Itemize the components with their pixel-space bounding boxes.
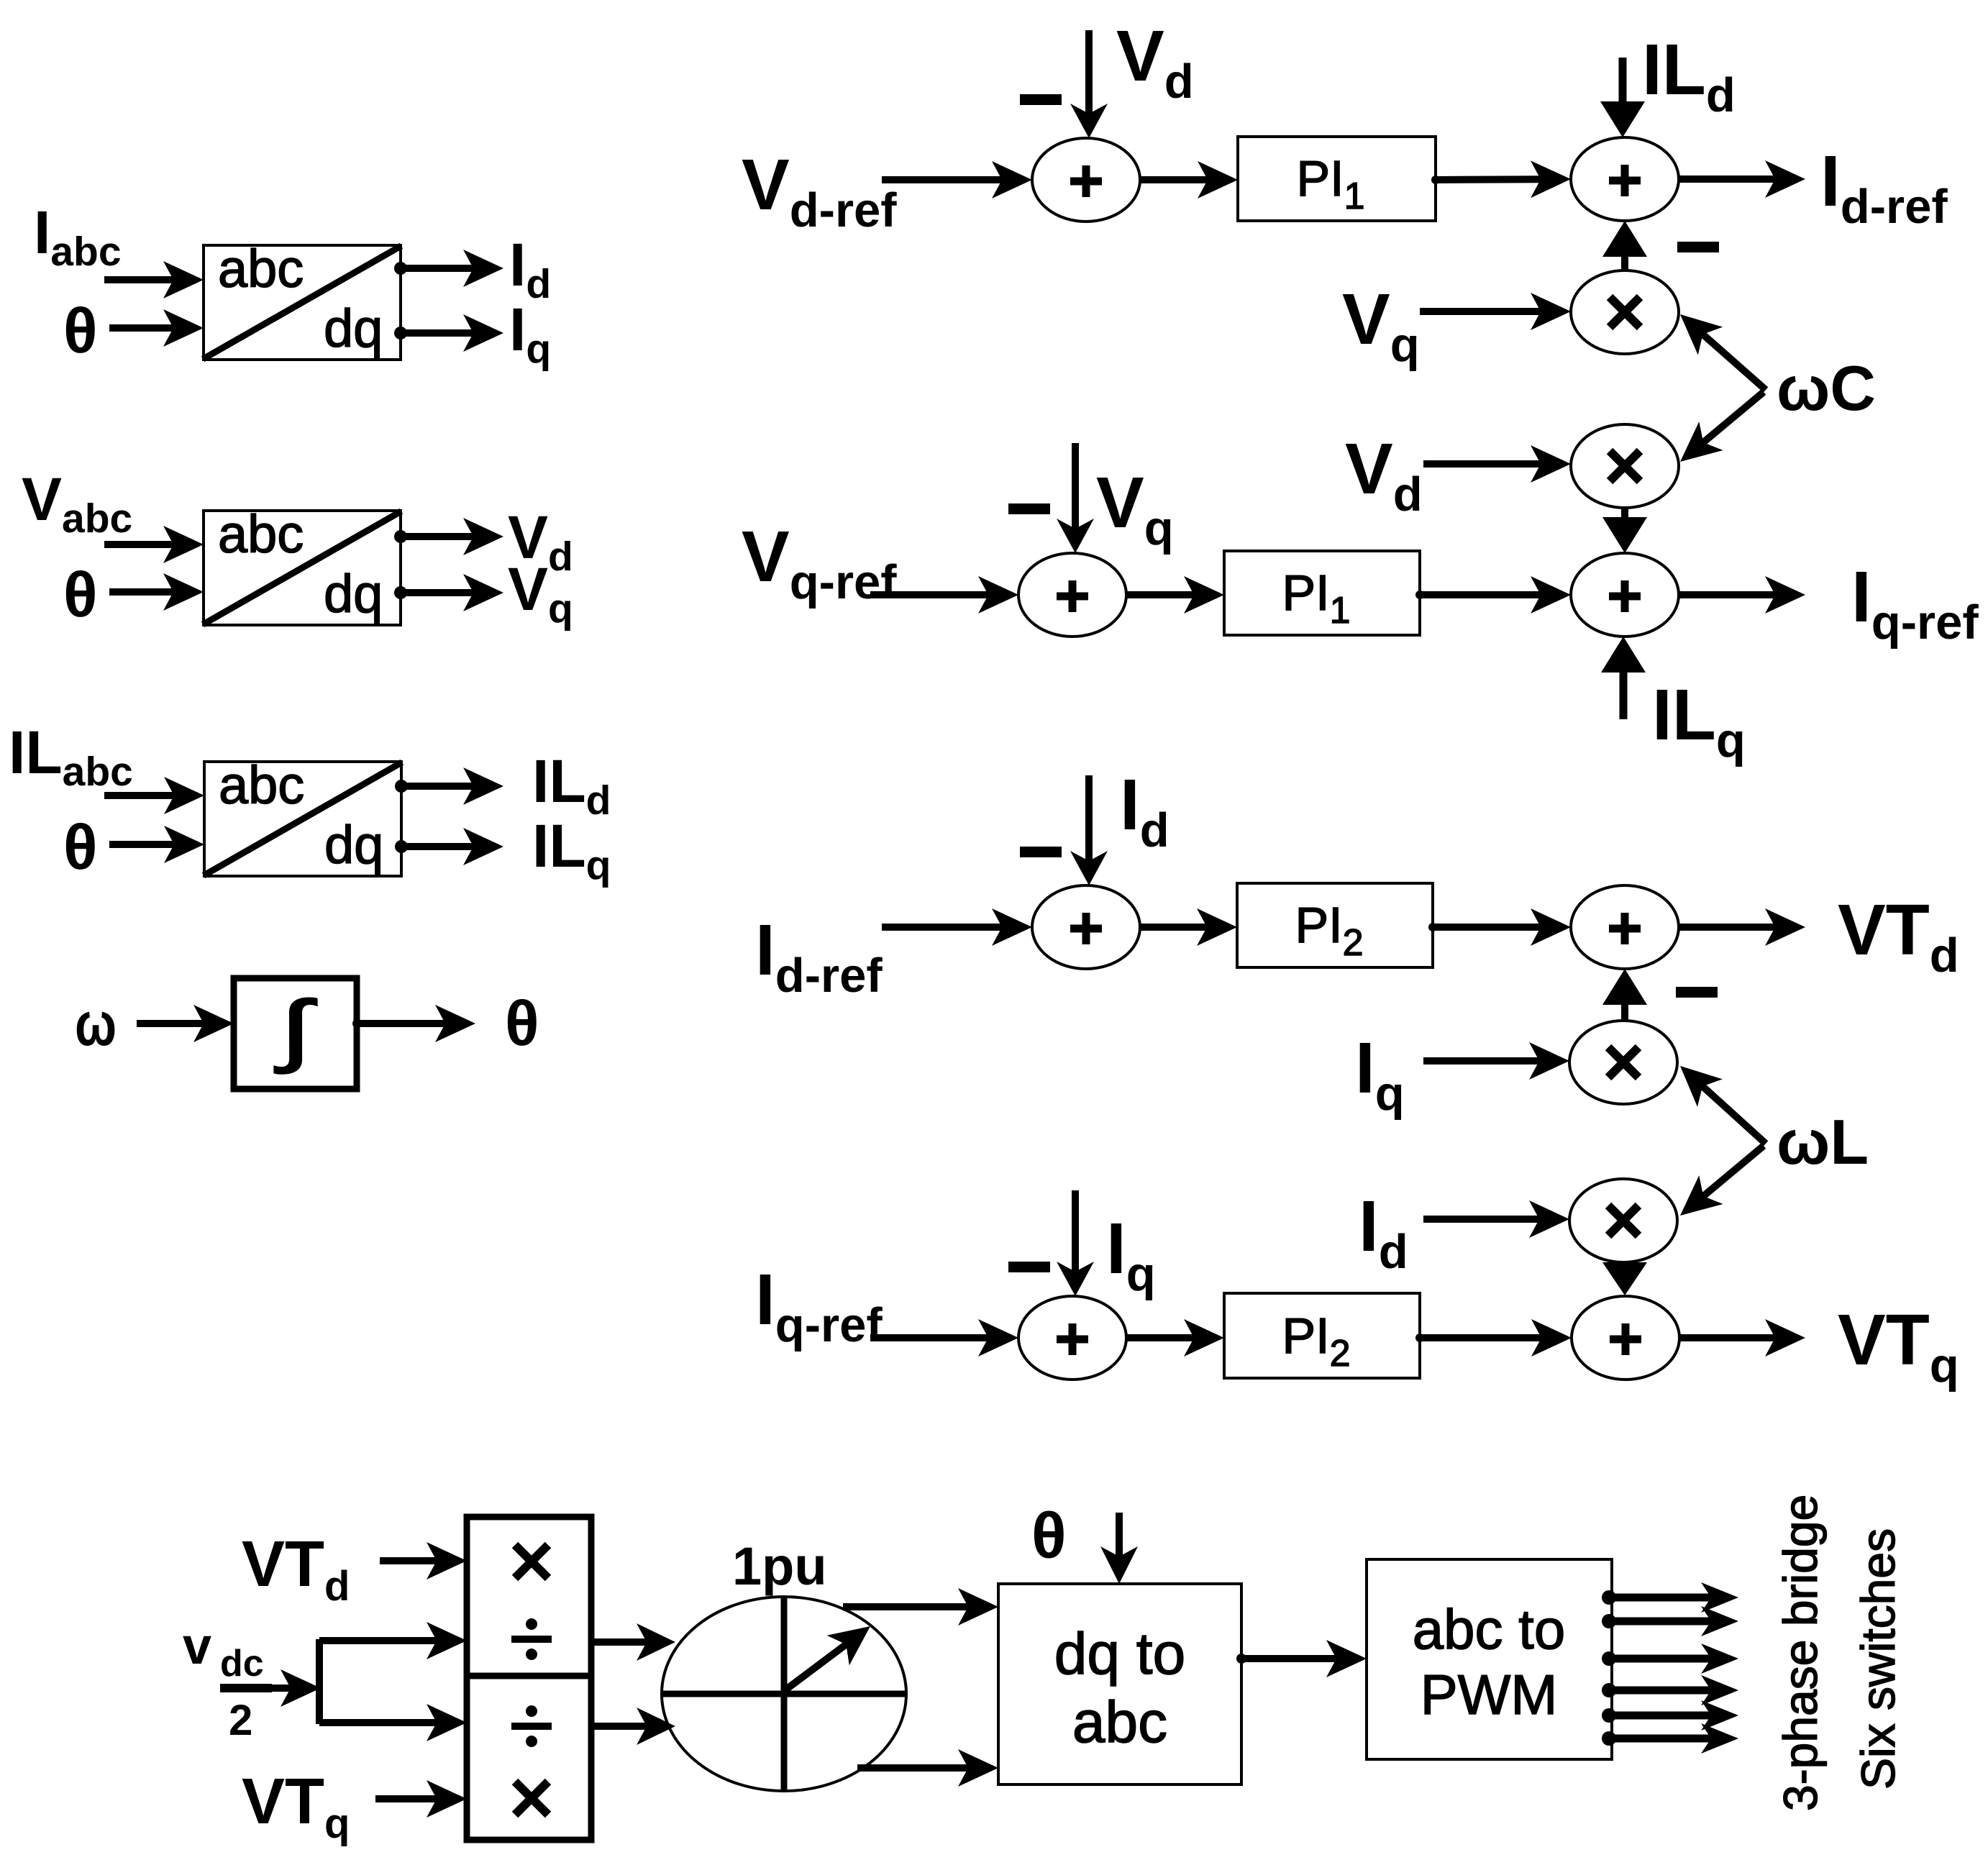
summer Iq2 <box>1572 1296 1679 1380</box>
block divide-multiply bottom <box>467 1676 591 1840</box>
wire dq-to-abc to abc-to-PWM arrow <box>1236 1640 1367 1677</box>
wire vdc branch bus <box>316 1639 323 1724</box>
wire VTd input arrow <box>380 1542 467 1579</box>
svg-text:VTq: VTq <box>242 1766 350 1847</box>
svg-text:Vq: Vq <box>1096 462 1174 555</box>
wire vdc input arrow <box>272 1669 321 1707</box>
label omega <box>75 990 117 1059</box>
svg-text:abc: abc <box>218 239 304 298</box>
svg-text:Vd-ref: Vd-ref <box>742 145 897 237</box>
label VTd output <box>1838 890 1959 983</box>
wire Vq feedback down arrow <box>1057 443 1094 553</box>
svg-text:θ: θ <box>63 295 98 366</box>
svg-text:PWM: PWM <box>1421 1663 1558 1726</box>
wire gate signal arrow 2 <box>1602 1606 1738 1636</box>
svg-text:dq: dq <box>324 815 383 875</box>
wire vdc to bottom divider arrow <box>319 1704 467 1741</box>
svg-text:PI1: PI1 <box>1282 565 1350 632</box>
wire Iq-ref output arrow <box>1679 576 1805 614</box>
minus sign at summer Iq1 <box>1008 1262 1050 1272</box>
label Id-ref output <box>1820 141 1948 234</box>
label Iq feedback <box>1106 1208 1156 1301</box>
wire Id feedback down arrow <box>1070 775 1108 885</box>
summer Vq1 <box>1018 553 1126 637</box>
block PI1 <box>1238 137 1436 221</box>
svg-text:abc: abc <box>219 755 304 815</box>
wire Iq-ref-ref input arrow <box>870 1319 1018 1357</box>
label Vq into M1 <box>1342 279 1420 372</box>
block abc-to-dq V <box>204 504 401 625</box>
wire theta input arrow to IL block <box>109 826 204 863</box>
wire PI1 to summer Vq2 <box>1415 576 1571 614</box>
multiplier M1 Vq-times-wC <box>1571 270 1679 354</box>
wire Iq output arrow <box>394 314 503 352</box>
wire gate signal arrow 3 <box>1602 1644 1738 1674</box>
wire Vabc input arrow <box>104 526 204 563</box>
label wC gain <box>1777 352 1876 424</box>
svg-text:Iq: Iq <box>1355 1028 1405 1121</box>
label theta into dq-to-abc <box>1031 1500 1067 1572</box>
label Iq reference input <box>755 1259 883 1352</box>
svg-text:ILd: ILd <box>1642 29 1736 122</box>
svg-text:PI1: PI1 <box>1296 150 1364 217</box>
label VTq input <box>242 1766 350 1847</box>
block PI2 <box>1237 883 1433 967</box>
svg-text:Id-ref: Id-ref <box>755 910 883 1003</box>
wire M3 to summer Id2 up arrow <box>1602 969 1647 1021</box>
minus sign below summer Vd2 <box>1677 242 1719 252</box>
wire summer Iq1 to PI2 <box>1126 1319 1224 1357</box>
label VTq output <box>1838 1300 1959 1392</box>
svg-text:Iq-ref: Iq-ref <box>1851 557 1979 649</box>
block abc-to-dq IL <box>204 755 401 876</box>
wire Vd into M2 arrow <box>1423 445 1571 483</box>
svg-text:θ: θ <box>505 988 539 1059</box>
minus sign at summer Id1 <box>1020 847 1062 857</box>
label VTd input <box>242 1528 350 1610</box>
svg-text:VTq: VTq <box>1838 1300 1959 1392</box>
wire M1 to summer Vd2 up arrow <box>1602 221 1647 271</box>
wire ILq feedforward up arrow <box>1601 637 1646 719</box>
svg-text:1pu: 1pu <box>732 1536 827 1596</box>
label Iq output <box>509 296 551 372</box>
svg-text:VTd: VTd <box>242 1528 350 1610</box>
summer Iq1 <box>1018 1296 1126 1380</box>
wire ILq output arrow <box>395 828 503 865</box>
svg-text:ω: ω <box>75 990 117 1059</box>
svg-text:Six switches: Six switches <box>1851 1528 1905 1790</box>
label ILq output <box>532 812 611 888</box>
wire ILd output arrow <box>395 767 503 805</box>
svg-text:Vd: Vd <box>1345 429 1423 521</box>
label Id feedback <box>1120 765 1169 857</box>
wire Vq-ref-ref input arrow <box>870 576 1018 614</box>
svg-text:dq: dq <box>324 564 383 624</box>
svg-text:2: 2 <box>229 1696 252 1744</box>
multiplier M2 Vd-times-wC <box>1571 424 1679 508</box>
summer Id2 <box>1571 885 1679 969</box>
wire Vd output arrow <box>394 518 503 555</box>
summer Vq2 <box>1571 553 1679 637</box>
multiplier M3 Iq-times-wL <box>1569 1021 1677 1104</box>
wire Id output arrow <box>394 250 503 287</box>
label wL gain <box>1777 1106 1869 1177</box>
wire VTq output arrow <box>1679 1319 1805 1357</box>
svg-text:abc to: abc to <box>1413 1597 1565 1661</box>
wire Id-ref-ref input arrow <box>882 908 1032 946</box>
label ILd feedforward <box>1642 29 1736 122</box>
svg-text:Id: Id <box>1359 1186 1408 1279</box>
wire M2 down to summer Vq2 arrow <box>1602 508 1647 553</box>
svg-text:ωC: ωC <box>1777 352 1876 424</box>
block PI2 <box>1224 1293 1420 1378</box>
label Vabc <box>22 465 132 542</box>
label Vd feedback <box>1116 16 1194 109</box>
wire Vd-ref-ref input arrow <box>882 161 1032 199</box>
wire bottom divider output arrow <box>591 1708 675 1745</box>
wire ILd feedforward down arrow <box>1600 58 1645 137</box>
summer Vd1 <box>1032 138 1140 222</box>
svg-text:Iabc: Iabc <box>34 199 122 275</box>
wire summer Vd1 to PI1 <box>1140 161 1238 199</box>
svg-text:θ: θ <box>63 559 98 630</box>
svg-text:Id-ref: Id-ref <box>1820 141 1948 234</box>
wire Id-ref output arrow <box>1679 160 1805 198</box>
label Vq feedback <box>1096 462 1174 555</box>
summer Id1 <box>1032 885 1140 969</box>
svg-text:ILq: ILq <box>1652 675 1746 767</box>
wire theta input arrow to I block <box>109 309 204 347</box>
summer Vd2 <box>1571 137 1679 221</box>
wire wC to M2 arrow <box>1680 392 1764 462</box>
svg-text:v: v <box>183 1618 211 1675</box>
label Iq-ref output <box>1851 557 1979 649</box>
svg-text:θ: θ <box>1031 1500 1067 1572</box>
label vdc-over-2 <box>183 1618 272 1744</box>
wire gate signal arrow 5 <box>1602 1700 1738 1731</box>
wire limiter top output arrow <box>843 1588 998 1626</box>
svg-text:PI2: PI2 <box>1282 1308 1350 1375</box>
svg-text:abc: abc <box>218 504 304 564</box>
label 1pu <box>732 1536 827 1596</box>
wire Iabc input arrow <box>104 261 204 298</box>
svg-text:θ: θ <box>63 811 98 883</box>
wire gate signal arrow 4 <box>1602 1675 1738 1705</box>
svg-text:dq to: dq to <box>1054 1621 1185 1687</box>
label Id into M4 <box>1359 1186 1408 1279</box>
block abc-to-dq I <box>204 239 401 360</box>
wire gate signal arrow 1 <box>1602 1582 1738 1613</box>
wire PI1 to summer Vd2 <box>1431 160 1571 198</box>
label ILd output <box>532 747 611 824</box>
wire theta input arrow to V block <box>109 573 204 611</box>
wire M4 down to summer Iq2 arrow <box>1602 1262 1647 1295</box>
label theta input of I block <box>63 295 98 366</box>
svg-text:Id: Id <box>1120 765 1169 857</box>
label Vq output <box>508 555 573 632</box>
label Vq reference input <box>742 516 897 609</box>
wire limiter bottom output arrow <box>857 1749 998 1787</box>
label Iq into M3 <box>1355 1028 1405 1121</box>
label Id output <box>509 231 551 307</box>
svg-text:abc: abc <box>1072 1690 1167 1755</box>
label Vd output <box>508 503 573 580</box>
wire omega input arrow <box>137 1005 234 1042</box>
label ILabc <box>9 719 133 795</box>
wire summer Vq1 to PI1 <box>1126 576 1224 614</box>
label theta input of V block <box>63 559 98 630</box>
wire wL to M3 arrow <box>1680 1066 1766 1144</box>
wire summer Id1 to PI2 <box>1140 908 1237 946</box>
wire Vq output arrow <box>394 574 503 611</box>
label Six switches <box>1851 1528 1905 1790</box>
minus sign at summer Vd1 <box>1020 94 1062 105</box>
svg-text:Vabc: Vabc <box>22 465 132 542</box>
wire gate signal arrow 6 <box>1602 1723 1738 1754</box>
label Id reference input <box>755 910 883 1003</box>
label Vd reference input <box>742 145 897 237</box>
svg-text:PI2: PI2 <box>1295 897 1363 964</box>
svg-text:ILabc: ILabc <box>9 719 133 795</box>
svg-text:Vd: Vd <box>1116 16 1194 109</box>
label ILq feedforward <box>1652 675 1746 767</box>
block PI1 <box>1224 551 1420 635</box>
multiplier M4 Id-times-wL <box>1569 1179 1677 1262</box>
svg-text:Iq-ref: Iq-ref <box>755 1259 883 1352</box>
wire Iq into M3 arrow <box>1423 1042 1569 1080</box>
wire top divider output arrow <box>591 1623 675 1661</box>
svg-text:∫: ∫ <box>275 985 316 1073</box>
svg-text:Iq: Iq <box>1106 1208 1156 1301</box>
block abc-to-PWM <box>1367 1559 1612 1759</box>
label 3-phase bridge <box>1774 1495 1827 1811</box>
label theta output of integrator <box>505 988 539 1059</box>
minus sign at summer Vq1 <box>1008 503 1050 514</box>
svg-text:dc: dc <box>220 1643 264 1685</box>
wire ILabc input arrow <box>104 777 204 814</box>
svg-text:dq: dq <box>324 298 383 358</box>
wire Vq into M1 arrow <box>1420 293 1571 330</box>
wire theta down arrow into dq-to-abc <box>1100 1513 1138 1584</box>
block multiply-divide top <box>467 1517 591 1676</box>
block dq-to-abc <box>998 1584 1241 1784</box>
block limiter circle <box>662 1597 906 1791</box>
wire VTq input arrow <box>375 1780 467 1818</box>
label theta input of IL block <box>63 811 98 883</box>
svg-text:3-phase bridge: 3-phase bridge <box>1774 1495 1827 1811</box>
svg-text:VTd: VTd <box>1838 890 1959 983</box>
wire PI2 to summer Id2 <box>1428 908 1571 946</box>
wire Id into M4 arrow <box>1423 1200 1569 1238</box>
wire vdc to top divider arrow <box>319 1622 467 1659</box>
wire wL to M4 arrow <box>1680 1146 1764 1216</box>
svg-text:ωL: ωL <box>1777 1106 1869 1177</box>
wire PI2 to summer Iq2 <box>1415 1319 1572 1357</box>
minus sign below summer Id2 <box>1676 987 1718 998</box>
wire Vd feedback down arrow <box>1070 30 1108 138</box>
svg-text:Vq: Vq <box>1342 279 1420 372</box>
wire VTd output arrow <box>1679 908 1805 946</box>
wire Iq feedback down arrow <box>1057 1190 1094 1296</box>
wire theta output arrow <box>352 1005 475 1042</box>
svg-text:Vq-ref: Vq-ref <box>742 516 897 609</box>
label Vd into M2 <box>1345 429 1423 521</box>
wire wC to M1 arrow <box>1680 314 1766 390</box>
block integrator <box>234 978 357 1089</box>
label Iabc <box>34 199 122 275</box>
